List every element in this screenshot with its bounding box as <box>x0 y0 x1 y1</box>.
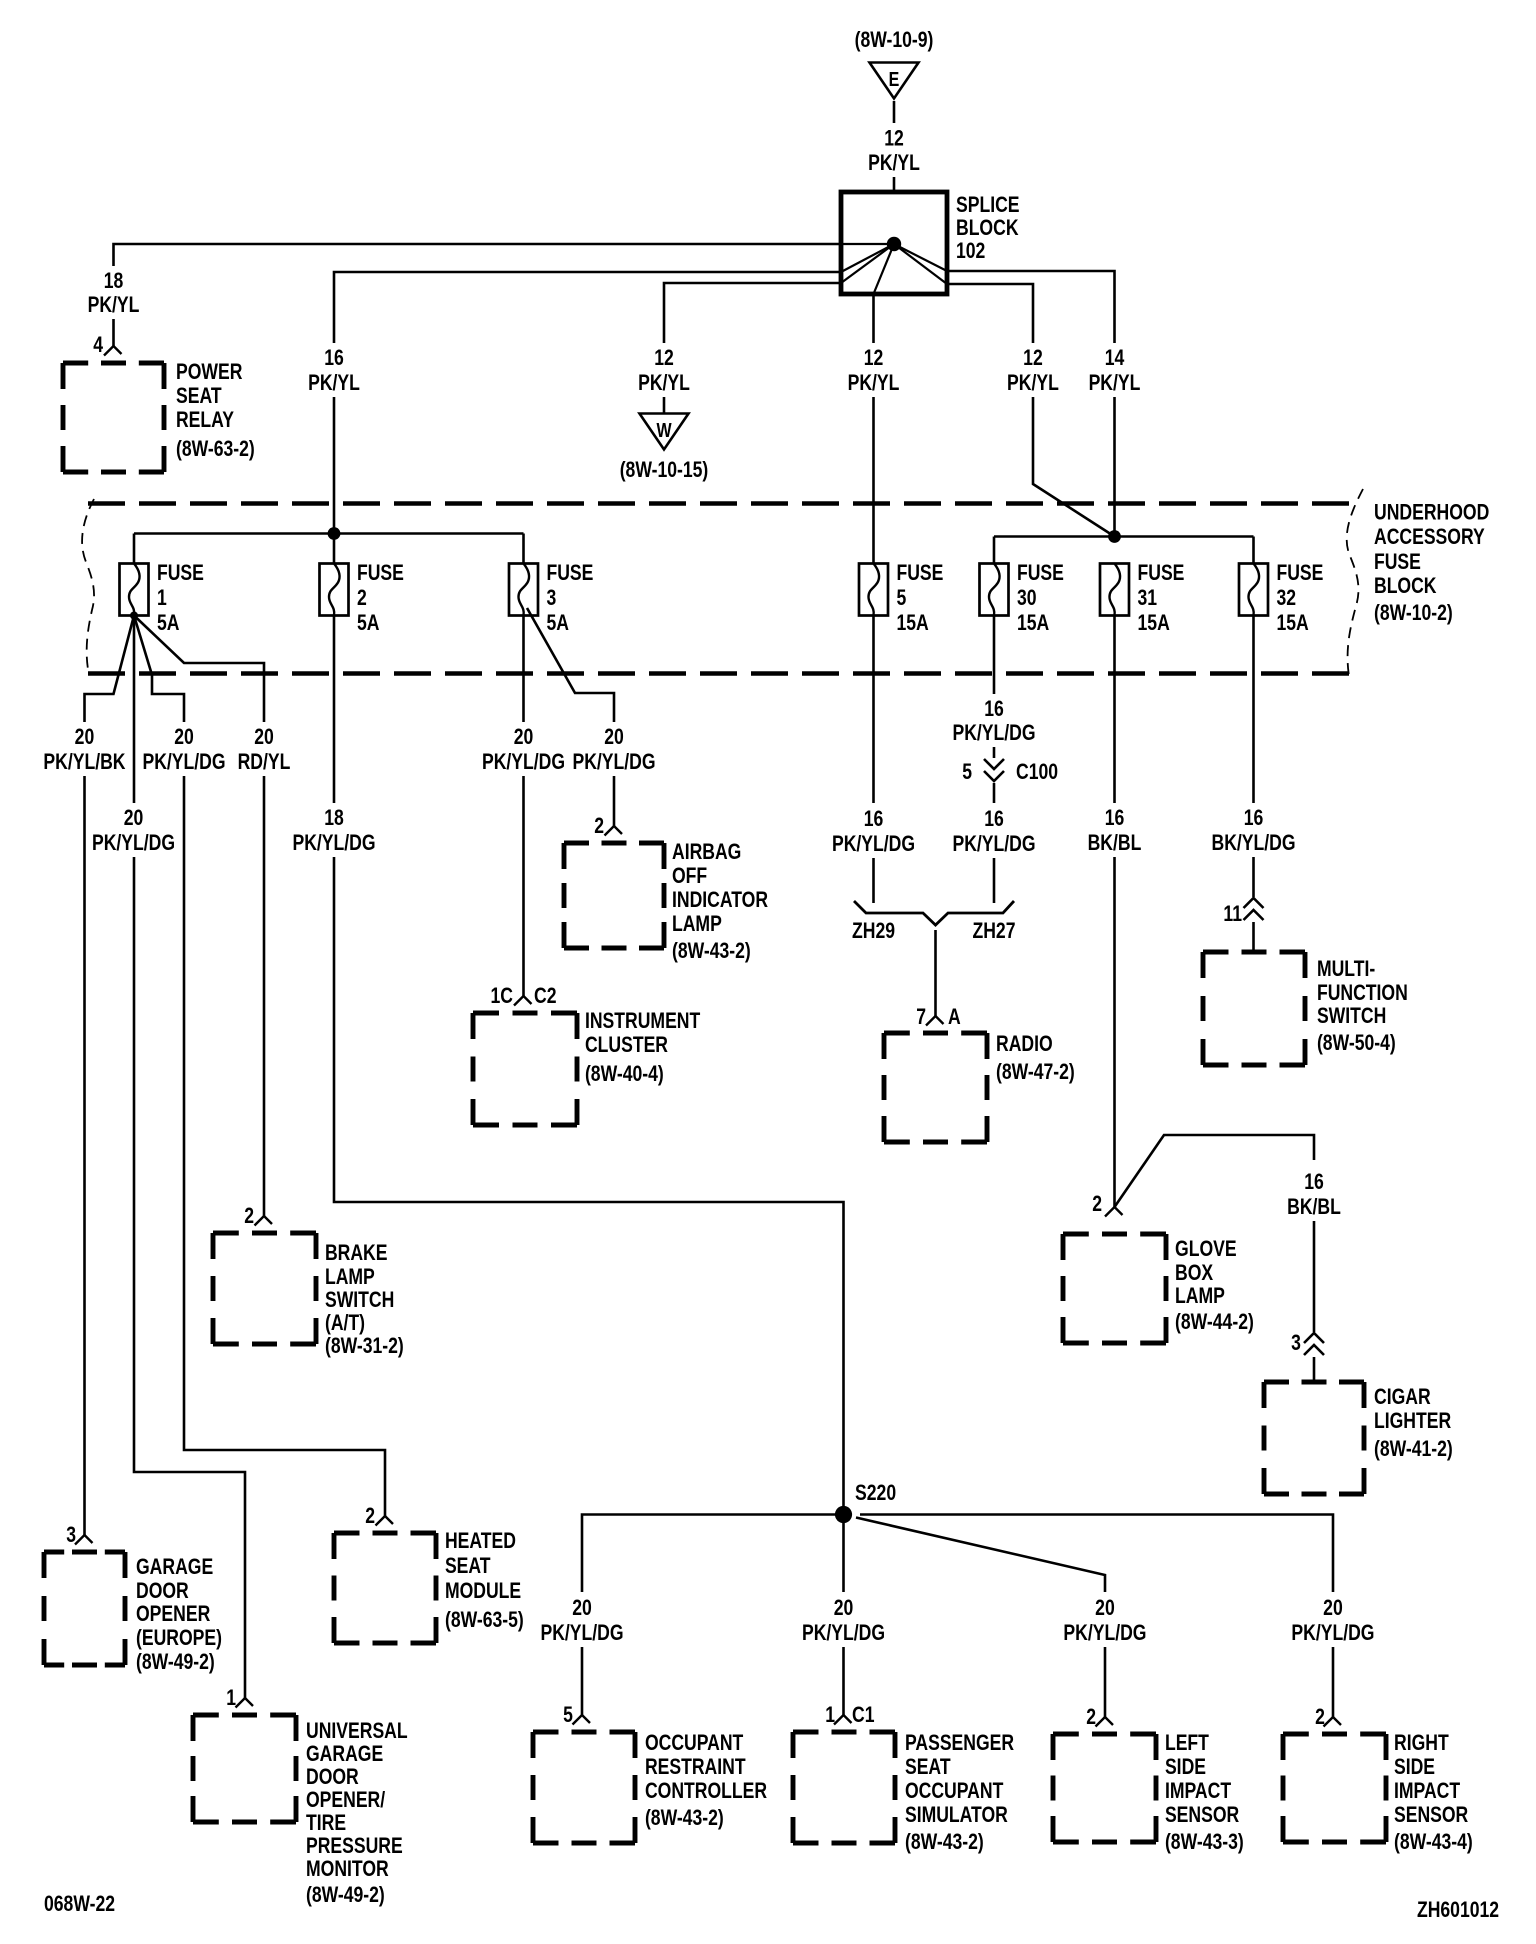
svg-text:LEFT: LEFT <box>1165 1731 1209 1755</box>
underhood accessory fuse block top dashed boundary <box>88 501 1360 506</box>
fuse 2 <box>320 564 349 616</box>
svg-text:SPLICE: SPLICE <box>956 193 1020 217</box>
wire 20 PK/YL/DG to heated seat module <box>184 776 385 1516</box>
svg-text:BK/BL: BK/BL <box>1287 1195 1341 1219</box>
svg-text:FUSE: FUSE <box>1017 561 1064 585</box>
svg-text:PK/YL/DG: PK/YL/DG <box>292 831 375 855</box>
svg-text:DOOR: DOOR <box>306 1765 359 1789</box>
fuse 2 output wire <box>333 616 336 804</box>
svg-text:PRESSURE: PRESSURE <box>306 1834 403 1858</box>
svg-text:20: 20 <box>1095 1596 1115 1620</box>
wire into W triangle <box>663 397 666 414</box>
svg-text:20: 20 <box>834 1596 854 1620</box>
svg-text:20: 20 <box>572 1596 592 1620</box>
svg-text:POWER: POWER <box>176 360 242 384</box>
svg-text:PK/YL: PK/YL <box>1089 371 1141 395</box>
svg-text:2: 2 <box>357 586 367 610</box>
fuse 1 straight down wire <box>133 616 136 804</box>
svg-text:RD/YL: RD/YL <box>238 750 291 774</box>
node E triangle <box>870 63 919 99</box>
passenger seat occupant simulator box <box>793 1732 895 1843</box>
svg-text:(8W-43-2): (8W-43-2) <box>645 1806 724 1830</box>
svg-text:LAMP: LAMP <box>672 912 722 936</box>
wire from E triangle to splice block <box>893 101 896 123</box>
svg-text:31: 31 <box>1138 586 1158 610</box>
svg-text:20: 20 <box>124 806 144 830</box>
svg-text:1: 1 <box>157 586 167 610</box>
svg-text:12: 12 <box>864 346 884 370</box>
splice bracket ZH29 / ZH27 <box>854 901 1014 925</box>
fuse 32 output wire <box>1252 616 1255 804</box>
svg-text:OPENER: OPENER <box>136 1602 210 1626</box>
svg-text:FUSE: FUSE <box>1138 561 1185 585</box>
svg-text:PK/YL: PK/YL <box>88 293 140 317</box>
fuse 3 <box>509 564 538 616</box>
svg-text:(A/T): (A/T) <box>325 1311 365 1335</box>
svg-text:BRAKE: BRAKE <box>325 1241 388 1265</box>
svg-text:20: 20 <box>604 725 624 749</box>
svg-text:SIDE: SIDE <box>1165 1755 1206 1779</box>
svg-text:1C: 1C <box>490 984 512 1008</box>
svg-text:OCCUPANT: OCCUPANT <box>905 1779 1003 1803</box>
radio box <box>884 1033 987 1142</box>
svg-text:5: 5 <box>563 1703 573 1727</box>
wire splice second right branch <box>947 284 1033 343</box>
svg-text:20: 20 <box>174 725 194 749</box>
svg-text:BK/BL: BK/BL <box>1088 831 1142 855</box>
bus drop to fuse 1 <box>133 534 136 564</box>
wire to ZH29 bracket <box>872 858 875 903</box>
svg-text:5A: 5A <box>357 611 379 635</box>
svg-text:SEAT: SEAT <box>445 1554 491 1578</box>
S220 wire to occupant restraint controller <box>582 1515 844 1593</box>
svg-text:IMPACT: IMPACT <box>1165 1779 1231 1803</box>
svg-text:AIRBAG: AIRBAG <box>672 840 741 864</box>
svg-text:OCCUPANT: OCCUPANT <box>645 1731 743 1755</box>
inline connector 3 cigar lighter <box>1304 1333 1324 1355</box>
airbag off indicator lamp box <box>564 843 664 948</box>
wire to C100 connector <box>993 747 996 758</box>
wire splice to power seat relay <box>114 244 842 266</box>
svg-text:MODULE: MODULE <box>445 1579 521 1603</box>
svg-text:PK/YL/DG: PK/YL/DG <box>1063 1621 1146 1645</box>
splice S220 junction dot <box>835 1506 852 1523</box>
svg-text:BOX: BOX <box>1175 1261 1214 1285</box>
cigar lighter box <box>1264 1382 1364 1494</box>
svg-text:32: 32 <box>1276 586 1296 610</box>
svg-text:PK/YL: PK/YL <box>308 371 360 395</box>
fuse 32 <box>1239 564 1268 616</box>
connector pin 3 garage door opener <box>75 1535 93 1545</box>
svg-text:15A: 15A <box>896 611 928 635</box>
right side impact sensor box <box>1283 1734 1386 1842</box>
wire 20 PK/YL/DG to instrument cluster <box>522 776 525 996</box>
svg-text:INDICATOR: INDICATOR <box>672 888 768 912</box>
svg-text:30: 30 <box>1017 586 1037 610</box>
svg-text:16: 16 <box>1304 1170 1324 1194</box>
svg-text:5: 5 <box>896 586 906 610</box>
svg-text:CONTROLLER: CONTROLLER <box>645 1779 767 1803</box>
svg-text:PK/YL/DG: PK/YL/DG <box>142 750 225 774</box>
fuse block torn right edge <box>1347 489 1363 676</box>
svg-text:(8W-31-2): (8W-31-2) <box>325 1334 404 1358</box>
fuse 31 output wire <box>1113 616 1116 804</box>
svg-text:PK/YL/DG: PK/YL/DG <box>952 832 1035 856</box>
bus drop to fuse 32 <box>1252 537 1255 564</box>
svg-text:(8W-63-5): (8W-63-5) <box>445 1608 524 1632</box>
svg-text:SENSOR: SENSOR <box>1165 1803 1239 1827</box>
power seat relay box <box>63 363 164 472</box>
svg-text:MONITOR: MONITOR <box>306 1857 389 1881</box>
connector pin 2 airbag off indicator lamp <box>605 826 623 836</box>
S220 diagonal wire to left side impact sensor <box>856 1518 1105 1593</box>
svg-text:PK/YL: PK/YL <box>868 151 920 175</box>
svg-text:18: 18 <box>324 806 344 830</box>
heated seat module box <box>334 1533 436 1643</box>
svg-text:PK/YL/DG: PK/YL/DG <box>1291 1621 1374 1645</box>
svg-text:SIDE: SIDE <box>1394 1755 1435 1779</box>
svg-text:12: 12 <box>654 346 674 370</box>
wire below C100 <box>993 783 996 803</box>
svg-text:16: 16 <box>864 807 884 831</box>
svg-text:LAMP: LAMP <box>325 1265 375 1289</box>
svg-text:(8W-49-2): (8W-49-2) <box>306 1883 385 1907</box>
fuse 5 <box>859 564 888 616</box>
svg-text:16: 16 <box>984 807 1004 831</box>
wire 18 PK/YL/DG to splice S220 <box>334 857 844 1506</box>
svg-text:ZH29: ZH29 <box>852 919 895 943</box>
wire splice to fuse 2 <box>334 272 841 343</box>
svg-text:PK/YL/DG: PK/YL/DG <box>572 750 655 774</box>
wire 20 PK/YL/DG down <box>842 1647 845 1715</box>
svg-text:5: 5 <box>962 760 972 784</box>
wire into cigar lighter <box>1313 1357 1316 1382</box>
wire into multi-function switch <box>1252 922 1255 952</box>
svg-text:CLUSTER: CLUSTER <box>585 1033 668 1057</box>
svg-text:16: 16 <box>324 346 344 370</box>
inline connector 11 multi-function switch <box>1244 898 1264 920</box>
connector 1C of C2 instrument cluster <box>514 996 532 1006</box>
underhood accessory fuse block bottom dashed boundary <box>88 671 1360 676</box>
wire from bracket to radio <box>934 930 937 1016</box>
svg-text:INSTRUMENT: INSTRUMENT <box>585 1009 700 1033</box>
S220 wire down to passenger seat occupant simulator <box>842 1523 845 1592</box>
svg-text:2: 2 <box>365 1504 375 1528</box>
svg-text:PK/YL/DG: PK/YL/DG <box>92 831 175 855</box>
svg-text:(8W-10-9): (8W-10-9) <box>855 28 934 52</box>
svg-text:LIGHTER: LIGHTER <box>1374 1409 1451 1433</box>
svg-text:FUSE: FUSE <box>1276 561 1323 585</box>
svg-text:ACCESSORY: ACCESSORY <box>1374 525 1485 549</box>
svg-text:GLOVE: GLOVE <box>1175 1237 1237 1261</box>
splice block 102 box <box>841 192 947 294</box>
svg-text:PK/YL: PK/YL <box>638 371 690 395</box>
svg-text:2: 2 <box>1086 1705 1096 1729</box>
brake lamp switch box <box>213 1233 316 1344</box>
svg-text:18: 18 <box>104 269 124 293</box>
svg-text:OFF: OFF <box>672 864 707 888</box>
fuse 1 <box>120 564 149 616</box>
wire to ZH27 bracket <box>993 858 996 903</box>
svg-text:3: 3 <box>1291 1331 1301 1355</box>
svg-text:BLOCK: BLOCK <box>1374 574 1437 598</box>
svg-text:C2: C2 <box>534 984 556 1008</box>
svg-text:CIGAR: CIGAR <box>1374 1385 1431 1409</box>
svg-text:11: 11 <box>1223 902 1242 926</box>
svg-text:ZH27: ZH27 <box>972 919 1015 943</box>
svg-text:(8W-49-2): (8W-49-2) <box>136 1650 215 1674</box>
svg-text:OPENER/: OPENER/ <box>306 1788 386 1812</box>
svg-text:ZH601012: ZH601012 <box>1417 1898 1499 1922</box>
svg-text:S220: S220 <box>855 1481 896 1505</box>
right bus junction dot <box>1108 530 1121 543</box>
svg-text:PK/YL: PK/YL <box>1007 371 1059 395</box>
svg-text:12: 12 <box>1023 346 1043 370</box>
svg-text:C1: C1 <box>852 1703 874 1727</box>
svg-text:16: 16 <box>1105 806 1125 830</box>
svg-text:2: 2 <box>244 1204 254 1228</box>
fuse 1 output junction dot <box>130 612 138 620</box>
wire to power seat relay connector <box>112 319 115 346</box>
svg-text:UNDERHOOD: UNDERHOOD <box>1374 501 1489 525</box>
connector pin 4 power seat relay <box>104 346 122 356</box>
svg-text:RESTRAINT: RESTRAINT <box>645 1755 746 1779</box>
svg-text:FUSE: FUSE <box>896 561 943 585</box>
svg-text:20: 20 <box>75 725 95 749</box>
wire into fuse 2 <box>333 397 336 564</box>
svg-text:068W-22: 068W-22 <box>44 1892 115 1916</box>
fuse 31 <box>1100 564 1129 616</box>
bus drop to fuse 30 <box>993 537 996 564</box>
garage door opener box <box>44 1552 125 1665</box>
svg-text:(8W-41-2): (8W-41-2) <box>1374 1437 1453 1461</box>
svg-text:PK/YL/DG: PK/YL/DG <box>802 1621 885 1645</box>
wire splice to fuse 31 feed <box>947 271 1115 343</box>
wire 20 PK/YL/DG down <box>581 1647 584 1715</box>
connector pin 2 glove box lamp <box>1105 1207 1123 1217</box>
svg-text:(8W-63-2): (8W-63-2) <box>176 437 255 461</box>
svg-text:E: E <box>889 68 900 90</box>
svg-text:C100: C100 <box>1016 760 1058 784</box>
svg-text:SENSOR: SENSOR <box>1394 1803 1468 1827</box>
bus drop to fuse 3 <box>522 534 525 564</box>
svg-text:PK/YL: PK/YL <box>848 371 900 395</box>
wire 20 PK/YL/DG down <box>1104 1647 1107 1717</box>
svg-text:15A: 15A <box>1017 611 1049 635</box>
S220 wire to right side impact sensor <box>860 1515 1333 1593</box>
svg-text:20: 20 <box>1323 1596 1343 1620</box>
svg-text:20: 20 <box>514 725 534 749</box>
svg-text:(8W-43-3): (8W-43-3) <box>1165 1830 1244 1854</box>
fuse 30 <box>980 564 1009 616</box>
svg-text:(8W-10-2): (8W-10-2) <box>1374 601 1453 625</box>
fuse block torn left edge <box>82 499 94 675</box>
wire 20 RD/YL down to brake lamp switch <box>263 776 266 1216</box>
svg-text:FUSE: FUSE <box>357 561 404 585</box>
left bus junction dot <box>328 527 341 540</box>
svg-text:(8W-44-2): (8W-44-2) <box>1175 1310 1254 1334</box>
svg-text:(8W-43-4): (8W-43-4) <box>1394 1830 1473 1854</box>
svg-text:HEATED: HEATED <box>445 1529 516 1553</box>
svg-text:PK/YL/DG: PK/YL/DG <box>832 832 915 856</box>
wire splice to W fusible link <box>664 283 841 343</box>
svg-text:DOOR: DOOR <box>136 1579 189 1603</box>
svg-text:PASSENGER: PASSENGER <box>905 1731 1014 1755</box>
wire to right bus junction <box>1113 397 1116 537</box>
svg-text:BK/YL/DG: BK/YL/DG <box>1212 831 1296 855</box>
svg-text:PK/YL/DG: PK/YL/DG <box>482 750 565 774</box>
instrument cluster box <box>473 1013 577 1125</box>
svg-text:IMPACT: IMPACT <box>1394 1779 1460 1803</box>
fuse block left bus wire <box>134 532 524 535</box>
wire 16 BK/BL to cigar lighter connector <box>1313 1221 1316 1332</box>
wire into splice block top <box>893 177 896 192</box>
svg-text:(EUROPE): (EUROPE) <box>136 1626 222 1650</box>
svg-text:TIRE: TIRE <box>306 1811 346 1835</box>
wire splice to fuse 5 <box>872 294 875 343</box>
svg-text:2: 2 <box>594 814 604 838</box>
wire 20 PK/YL/BK down to garage door opener <box>83 776 86 1535</box>
fuse block right bus wire <box>994 535 1254 538</box>
svg-text:W: W <box>656 419 672 441</box>
splice block fan-out lines <box>841 243 894 245</box>
svg-text:20: 20 <box>254 725 274 749</box>
connector pin 7 A radio <box>926 1016 944 1026</box>
svg-text:GARAGE: GARAGE <box>306 1742 383 1766</box>
svg-text:16: 16 <box>1244 806 1264 830</box>
svg-text:PK/YL/BK: PK/YL/BK <box>43 750 126 774</box>
svg-text:SIMULATOR: SIMULATOR <box>905 1803 1008 1827</box>
inline connector C100 <box>984 759 1004 781</box>
multi-function switch box <box>1203 952 1305 1065</box>
svg-text:MULTI-: MULTI- <box>1317 957 1375 981</box>
svg-text:A: A <box>948 1005 961 1029</box>
svg-text:4: 4 <box>93 333 103 357</box>
svg-text:12: 12 <box>884 127 904 151</box>
fuse 1 wire to heated seat module <box>134 616 184 723</box>
svg-text:2: 2 <box>1092 1192 1102 1216</box>
svg-text:LAMP: LAMP <box>1175 1284 1225 1308</box>
svg-text:(8W-10-15): (8W-10-15) <box>620 458 709 482</box>
fuse 3 output wire to instrument cluster <box>522 616 525 723</box>
svg-text:(8W-43-2): (8W-43-2) <box>905 1830 984 1854</box>
wire 16 BK/YL/DG down <box>1252 857 1255 897</box>
svg-text:RADIO: RADIO <box>996 1032 1053 1056</box>
svg-text:SEAT: SEAT <box>905 1755 951 1779</box>
svg-text:(8W-43-2): (8W-43-2) <box>672 939 751 963</box>
fuse 3 diagonal wire to airbag lamp <box>527 608 614 722</box>
connector pin 1 C1 passenger seat occupant simulator <box>834 1715 852 1725</box>
occupant restraint controller box <box>533 1732 635 1843</box>
svg-text:PK/YL/DG: PK/YL/DG <box>540 1621 623 1645</box>
svg-text:1: 1 <box>226 1686 236 1710</box>
connector pin 2 brake lamp switch <box>255 1216 273 1226</box>
svg-text:RIGHT: RIGHT <box>1394 1731 1449 1755</box>
universal garage door opener box <box>193 1715 296 1822</box>
svg-text:BLOCK: BLOCK <box>956 216 1019 240</box>
connector pin 2 heated seat module <box>376 1516 394 1526</box>
svg-text:PK/YL/DG: PK/YL/DG <box>952 721 1035 745</box>
connector pin 5 occupant restraint controller <box>573 1715 591 1725</box>
glove box lamp box <box>1063 1234 1166 1343</box>
svg-text:15A: 15A <box>1276 611 1308 635</box>
fuse 5 output wire <box>872 616 875 804</box>
splice block junction dot <box>887 237 901 251</box>
fuse 1 wire to brake lamp switch <box>134 616 264 723</box>
node W triangle <box>640 414 689 450</box>
svg-text:(8W-47-2): (8W-47-2) <box>996 1060 1075 1084</box>
svg-text:FUNCTION: FUNCTION <box>1317 981 1408 1005</box>
svg-text:3: 3 <box>546 586 556 610</box>
fuse 30 output wire <box>993 616 996 695</box>
svg-text:SWITCH: SWITCH <box>1317 1004 1386 1028</box>
svg-text:SWITCH: SWITCH <box>325 1288 394 1312</box>
connector pin 1 universal garage door opener <box>236 1698 254 1708</box>
svg-text:102: 102 <box>956 239 985 263</box>
svg-text:5A: 5A <box>157 611 179 635</box>
svg-text:7: 7 <box>916 1005 926 1029</box>
svg-text:(8W-50-4): (8W-50-4) <box>1317 1031 1396 1055</box>
wire 16 BK/BL down to glove box lamp <box>1113 857 1116 1207</box>
fuse 1 wire to garage door opener <box>85 616 135 723</box>
wire 20 PK/YL/DG to airbag off indicator lamp <box>613 776 616 826</box>
svg-text:5A: 5A <box>546 611 568 635</box>
svg-text:UNIVERSAL: UNIVERSAL <box>306 1719 408 1743</box>
svg-text:14: 14 <box>1105 346 1125 370</box>
svg-text:FUSE: FUSE <box>546 561 593 585</box>
wire diagonal to right bus junction <box>1033 397 1115 537</box>
wire 20 PK/YL/DG to universal garage door opener <box>134 857 245 1698</box>
wire into fuse 5 <box>872 397 875 564</box>
svg-text:15A: 15A <box>1138 611 1170 635</box>
svg-text:FUSE: FUSE <box>157 561 204 585</box>
svg-text:(8W-40-4): (8W-40-4) <box>585 1062 664 1086</box>
svg-text:FUSE: FUSE <box>1374 550 1421 574</box>
svg-text:16: 16 <box>984 697 1004 721</box>
svg-text:GARAGE: GARAGE <box>136 1555 213 1579</box>
connector pin 2 right side impact sensor <box>1324 1717 1342 1727</box>
connector pin 2 left side impact sensor <box>1096 1717 1114 1727</box>
branch wire to cigar lighter <box>1115 1135 1315 1207</box>
svg-text:SEAT: SEAT <box>176 384 222 408</box>
left side impact sensor box <box>1053 1734 1156 1842</box>
wire 20 PK/YL/DG down <box>1332 1647 1335 1717</box>
svg-text:RELAY: RELAY <box>176 408 234 432</box>
